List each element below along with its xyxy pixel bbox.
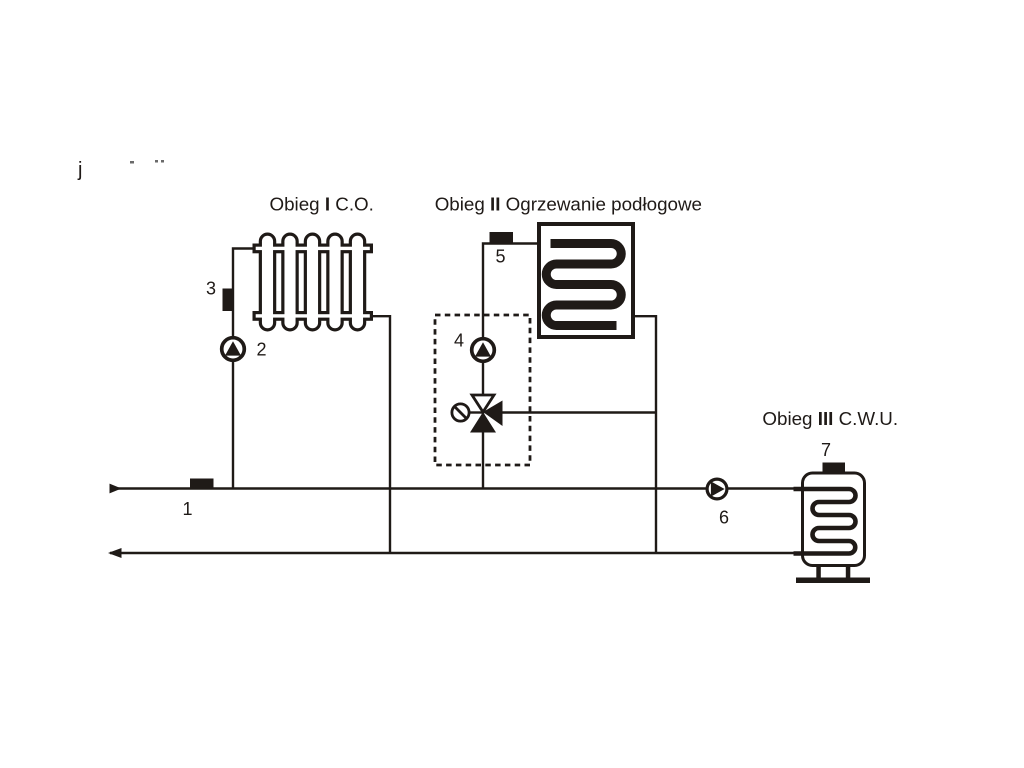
sensor 3: [223, 289, 234, 312]
arrow: supply flow (points right): [110, 484, 122, 494]
DHW tank 7: [794, 473, 871, 583]
floor heating coil: [546, 244, 621, 326]
svg-text:2: 2: [257, 340, 267, 360]
svg-text:6: 6: [719, 508, 729, 528]
pipe: circuit I riser: [233, 249, 256, 489]
svg-text:1: 1: [183, 499, 193, 519]
svg-text:Obieg III C.W.U.: Obieg III C.W.U.: [762, 408, 898, 429]
svg-text:7: 7: [821, 440, 831, 460]
sensor 1: [190, 479, 214, 489]
pipe: circuit II riser: [483, 244, 539, 489]
pump 2: [222, 338, 245, 361]
pump 6: [707, 479, 727, 499]
floor heating panel box: [539, 224, 633, 337]
sensor 7: [823, 463, 846, 473]
sensor 5: [490, 232, 514, 243]
pipe: valve bypass line: [502, 411, 656, 413]
svg-text:5: 5: [496, 247, 506, 267]
radiator (Obieg I): [256, 236, 370, 329]
scan artifact: dots: [130, 161, 134, 164]
pipe: supply main line: [111, 487, 795, 489]
mixing valve (3-way): [452, 395, 503, 433]
svg-text:Obieg I C.O.: Obieg I C.O.: [270, 194, 374, 215]
svg-text:4: 4: [454, 330, 464, 350]
pipe: radiator outlet to return: [370, 316, 390, 553]
pump 4: [472, 339, 495, 362]
dashed mixing unit box: [435, 315, 530, 465]
arrow: return flow (points left): [108, 548, 122, 558]
pipe: floor circuit outlet to return: [634, 316, 656, 553]
svg-text:3: 3: [206, 279, 216, 299]
svg-text:Obieg II Ogrzewanie podłogowe: Obieg II Ogrzewanie podłogowe: [435, 194, 702, 215]
svg-text:j: j: [77, 159, 82, 181]
pipe: return main line: [110, 552, 794, 554]
